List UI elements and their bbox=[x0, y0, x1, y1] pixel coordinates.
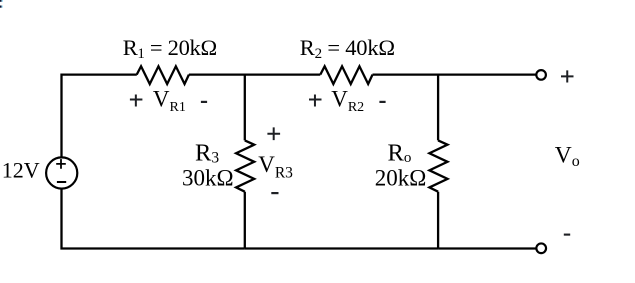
svg-text:20kΩ: 20kΩ bbox=[375, 166, 427, 191]
terminal node bottom (open circle) bbox=[536, 243, 546, 253]
wire top-left segment bbox=[62, 75, 137, 158]
svg-text:12V: 12V bbox=[2, 157, 40, 182]
voltage source minus sign bbox=[57, 181, 66, 183]
label + (VR3 polarity) bbox=[267, 127, 280, 140]
label - (VR3 polarity) bbox=[271, 192, 278, 194]
wire top-right segment (R2 to terminal) bbox=[373, 73, 538, 75]
resistor R3 bbox=[236, 140, 254, 191]
svg-text:R2 = 40kΩ: R2 = 40kΩ bbox=[300, 35, 395, 62]
label + (output polarity top) bbox=[561, 70, 574, 82]
edge artifact mark 2 bbox=[0, 6, 2, 8]
wire right vertical bottom (Ro to bottom rail) bbox=[437, 192, 439, 249]
svg-text:R1 = 20kΩ: R1 = 20kΩ bbox=[123, 35, 217, 62]
resistor Ro bbox=[429, 140, 447, 191]
label + (VR1 polarity) bbox=[130, 95, 143, 107]
wire middle vertical top (node to R3) bbox=[244, 75, 246, 141]
label - (VR2 polarity) bbox=[379, 101, 385, 103]
label - (output polarity bottom) bbox=[564, 234, 570, 236]
edge artifact mark 1 bbox=[0, 0, 2, 2]
wire bottom-left segment bbox=[62, 188, 245, 248]
resistor R2 bbox=[320, 66, 372, 84]
wire right vertical top (node to Ro) bbox=[437, 75, 439, 141]
voltage source V1 12V bbox=[46, 157, 77, 188]
terminal node top (open circle) bbox=[536, 70, 546, 80]
label - (VR1 polarity) bbox=[201, 101, 207, 103]
voltage source plus sign bbox=[56, 159, 66, 169]
resistor R1 bbox=[137, 66, 189, 84]
wire bottom-middle segment bbox=[245, 247, 438, 249]
wire bottom-right segment (to terminal) bbox=[438, 247, 537, 249]
label + (VR2 polarity) bbox=[309, 95, 322, 107]
wire middle vertical bottom (R3 to bottom rail) bbox=[244, 192, 246, 249]
svg-text:30kΩ: 30kΩ bbox=[182, 166, 234, 191]
wire top-middle segment (R1 to R2) bbox=[189, 73, 320, 75]
